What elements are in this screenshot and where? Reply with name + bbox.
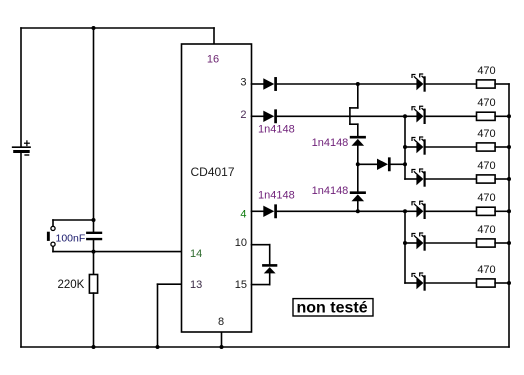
wire LED2 feed: [405, 115, 416, 117]
svg-text:15: 15: [235, 279, 247, 291]
diode D3: [263, 206, 275, 217]
resistor R4 470 body: [477, 143, 496, 151]
node right rail junction y=147: [507, 145, 511, 149]
LED LED3: [412, 137, 425, 154]
node R1 ground junction: [92, 345, 96, 349]
wire R3 to right rail: [495, 115, 509, 117]
wire D1 cathode run y=84: [277, 83, 416, 85]
capacitor C1 plates: [87, 233, 101, 239]
wire pin 4 stub: [252, 210, 264, 212]
pushbutton S1: [47, 220, 55, 252]
svg-text:8: 8: [218, 316, 224, 328]
svg-text:13: 13: [190, 279, 202, 291]
node right rail junction y=116.3: [507, 114, 511, 118]
resistor R2 470 body: [477, 80, 496, 88]
wire LED7 to R8: [426, 282, 477, 284]
svg-text:470: 470: [477, 192, 495, 204]
resistor R7 470 body: [477, 239, 496, 247]
node row1 / chain junction: [356, 82, 360, 86]
svg-text:100nF: 100nF: [56, 233, 86, 245]
diode D7 (pins 10-15): [263, 265, 276, 273]
wire pin 10 stub: [252, 244, 270, 246]
node column row6 junction: [403, 241, 407, 245]
wire right collector rail: [508, 84, 510, 347]
wire D4 anode to mid junction: [357, 146, 359, 165]
node right rail junction y=179: [507, 177, 511, 181]
pushbutton S1 top wire: [53, 219, 94, 221]
LED LED5: [412, 201, 425, 218]
svg-text:non testé: non testé: [297, 299, 368, 316]
resistor R1 220K body: [89, 275, 97, 294]
wire mid junction to D6: [358, 163, 377, 165]
svg-text:14: 14: [190, 248, 202, 260]
svg-text:10: 10: [235, 237, 247, 249]
wire R6 to right rail: [495, 210, 509, 212]
wire LED3 to R4: [426, 146, 477, 148]
wire pin 13 to ground rail: [158, 284, 182, 347]
diode D4 1n4148 (vertical, cathode up): [351, 137, 365, 146]
node pin13 ground junction: [156, 345, 160, 349]
node chain mid junction: [356, 162, 360, 166]
wire LED3 feed: [405, 146, 416, 148]
battery B1: [13, 141, 30, 155]
wire crossover jog over row2: [350, 108, 358, 124]
wire LED column lower (rows 5-7): [404, 211, 406, 283]
wire pin 16 drop into IC top: [213, 28, 215, 44]
wire R5 to right rail: [495, 178, 509, 180]
wire chain from row1 junction down: [357, 84, 359, 108]
diode D6: [377, 159, 389, 170]
node right rail junction y=243: [507, 241, 511, 245]
svg-text:16: 16: [207, 54, 219, 66]
wire D3 cathode run y=211.3: [277, 210, 405, 212]
wire LED6 feed: [405, 242, 416, 244]
node column row2 junction: [403, 114, 407, 118]
wire pin 2 stub: [252, 115, 264, 117]
node chain row5 junction: [356, 209, 360, 213]
node column row3 junction: [403, 145, 407, 149]
svg-text:1n4148: 1n4148: [258, 124, 295, 136]
wire LED5 feed: [405, 210, 416, 212]
node column D6 junction: [403, 162, 407, 166]
wire pin 8 to ground rail: [221, 332, 223, 347]
resistor R6 470 body: [477, 207, 496, 215]
node right rail junction y=283: [507, 281, 511, 285]
svg-text:1n4148: 1n4148: [312, 185, 349, 197]
wire LED7 feed: [405, 282, 416, 284]
wire jog to D4 cathode: [357, 124, 359, 136]
wire top supply rail from battery + to pin 16: [21, 27, 214, 29]
wire R7 to right rail: [495, 242, 509, 244]
LED LED7: [412, 273, 425, 290]
node column row5 junction: [403, 209, 407, 213]
wire D2 cathode run y=116.3: [277, 115, 405, 117]
wire D6 cathode to LED column: [391, 163, 405, 165]
wire R2 to right rail: [495, 83, 509, 85]
svg-text:1n4148: 1n4148: [258, 189, 295, 201]
resistor R5 470 body: [477, 175, 496, 183]
diode D2: [263, 111, 275, 122]
wire pin 10 loop down: [269, 245, 271, 265]
wire LED1 to R2: [426, 83, 477, 85]
svg-text:470: 470: [477, 65, 495, 77]
resistor R8 470 body: [477, 279, 496, 287]
svg-text:3: 3: [240, 77, 246, 89]
diode D5 1n4148 (vertical, cathode up): [351, 193, 365, 202]
note box non teste: [293, 299, 373, 317]
svg-text:CD4017: CD4017: [191, 165, 235, 179]
wire RC branch vertical upper (supply to C1 top): [93, 28, 95, 232]
wire R8 to right rail: [495, 282, 509, 284]
pushbutton S1 bottom wire: [53, 251, 94, 253]
wire pin 3 stub: [252, 83, 264, 85]
svg-text:470: 470: [477, 264, 495, 276]
wire LED column upper (rows 2-4): [404, 116, 406, 179]
svg-text:2: 2: [240, 109, 246, 121]
wire left rail battery - side down to ground rail: [20, 153, 22, 347]
node pin8 ground junction: [220, 345, 224, 349]
wire R1 bottom to ground rail: [93, 293, 95, 347]
node right rail junction y=211.3: [507, 209, 511, 213]
LED LED1: [412, 74, 425, 91]
wire LED4 to R5: [426, 178, 477, 180]
svg-text:470: 470: [477, 97, 495, 109]
svg-text:4: 4: [240, 209, 246, 221]
wire LED5 to R6: [426, 210, 477, 212]
node S1 top / C1 top junction: [92, 218, 96, 222]
wire pin 14 clock net: [94, 251, 182, 253]
LED LED4: [412, 169, 425, 186]
wire LED4 feed: [405, 178, 416, 180]
LED LED2: [412, 106, 425, 123]
svg-text:1n4148: 1n4148: [312, 137, 349, 149]
node supply/RC junction: [92, 26, 96, 30]
wire C1 bottom to R1 top: [93, 240, 95, 274]
svg-text:220K: 220K: [58, 279, 85, 291]
svg-text:470: 470: [477, 224, 495, 236]
wire LED2 to R3: [426, 115, 477, 117]
diode D1: [263, 78, 275, 89]
svg-text:470: 470: [477, 160, 495, 172]
wire D7 anode to pin 15: [252, 273, 270, 284]
wire left rail battery + side: [20, 28, 22, 146]
wire bottom ground rail: [21, 346, 509, 348]
wire R4 to right rail: [495, 146, 509, 148]
LED LED6: [412, 233, 425, 250]
wire LED6 to R7: [426, 242, 477, 244]
node pin14 / C1 bottom junction: [92, 250, 96, 254]
wire D5 anode to row5: [357, 201, 359, 211]
op-amp U1 CD4017 body: [182, 44, 252, 332]
svg-text:470: 470: [477, 128, 495, 140]
wire mid junction to D5 cathode: [357, 164, 359, 192]
resistor R3 470 body: [477, 112, 496, 120]
